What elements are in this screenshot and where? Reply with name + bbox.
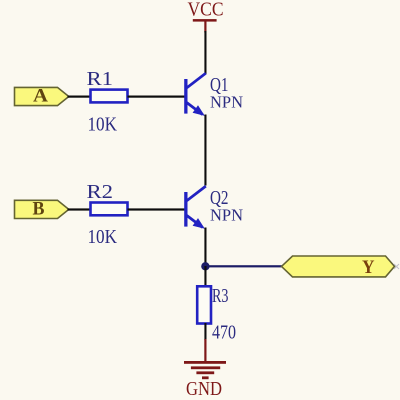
svg-text:GND: GND	[186, 379, 222, 400]
wire node to R3	[204, 266, 206, 287]
wire R1 to Q1 base	[128, 96, 186, 98]
input flag A	[15, 85, 69, 106]
svg-text:R2: R2	[87, 182, 114, 203]
resistor R2	[91, 203, 128, 216]
resistor R3	[197, 286, 211, 323]
ground symbol	[184, 339, 226, 379]
input flag B	[15, 199, 69, 220]
transistor Q2	[184, 186, 206, 229]
svg-text:B: B	[33, 199, 45, 220]
svg-text:470: 470	[212, 323, 236, 344]
svg-text:VCC: VCC	[188, 0, 224, 21]
resistor R1	[91, 90, 128, 103]
wire Q1 emitter to Q2 collector	[204, 115, 206, 186]
wire R2 to Q2 base	[128, 208, 186, 210]
svg-text:10K: 10K	[88, 114, 118, 135]
svg-text:NPN: NPN	[210, 93, 243, 112]
svg-text:R1: R1	[87, 69, 114, 90]
wire Q2 emitter to node	[204, 228, 206, 267]
output flag Y	[282, 256, 395, 278]
wire R3 to ground	[204, 323, 206, 340]
svg-text:Y: Y	[362, 257, 375, 278]
svg-text:10K: 10K	[88, 227, 118, 248]
svg-text:NPN: NPN	[210, 205, 243, 224]
wire A to R1	[68, 96, 92, 98]
wire VCC to Q1 collector	[204, 31, 206, 74]
wire node to output Y	[205, 265, 282, 267]
transistor Q1	[184, 73, 206, 116]
svg-text:A: A	[33, 85, 48, 106]
svg-text:R3: R3	[212, 286, 229, 307]
wire B to R2	[68, 208, 92, 210]
node junction dot	[201, 262, 209, 270]
power VCC symbol	[193, 19, 217, 32]
terminal pin mark at Y	[394, 264, 399, 269]
